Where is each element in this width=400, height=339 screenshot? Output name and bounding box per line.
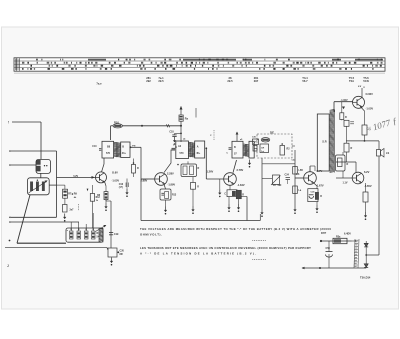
wire long feedback bottom [141, 220, 260, 222]
note paragraph 1 [140, 227, 331, 237]
gang arrow [29, 181, 47, 193]
det resistor R25 [280, 146, 285, 156]
wire IFT1 top to AGC [110, 126, 112, 140]
coil block S1 [36, 159, 51, 173]
svg-text:A: A [197, 146, 199, 149]
break marks on AGC [167, 124, 168, 127]
IFT1 windings [114, 142, 121, 157]
wire TS3 emitter [229, 185, 231, 189]
svg-text:45+: 45+ [196, 152, 201, 155]
electrolytic C25 symbol [309, 194, 314, 196]
wire det down x262 [261, 158, 263, 209]
cap C23 on x295 [293, 186, 298, 194]
wire base TS4 [295, 177, 304, 179]
ground TS3 a [228, 197, 230, 204]
wire base TS1 [57, 176, 96, 178]
cap C1b inside S1 [36, 166, 40, 171]
svg-text:LES TENSIONS ONT ETE MESUREES: LES TENSIONS ONT ETE MESUREES AVEC UN CO… [140, 246, 311, 250]
wire TS1 emitter [105, 182, 107, 187]
svg-text:7a.e: 7a.e [96, 82, 102, 86]
terminal power bottom [319, 267, 321, 269]
wire A5 bus [11, 221, 79, 223]
wire det to pot [262, 178, 272, 180]
IFT2 windings [189, 142, 195, 157]
transistor TS3 [224, 173, 237, 186]
svg-text:* * * * * * * *: * * * * * * * * [252, 239, 267, 243]
resistor R30 [344, 120, 349, 126]
svg-text:292: 292 [146, 79, 151, 83]
loudspeaker LS [377, 149, 385, 158]
resistor RB4 [92, 231, 96, 239]
wire up to det ground node [259, 214, 261, 221]
diode D2 [364, 264, 368, 268]
ground below TS4 [316, 202, 318, 205]
svg-text:B: B [122, 146, 124, 149]
battery B1 cells [354, 239, 359, 268]
svg-text:1st: 1st [261, 150, 264, 153]
terminal A5 [9, 221, 11, 223]
svg-text:C19: C19 [114, 233, 119, 236]
svg-text:T3A.D14: T3A.D14 [360, 276, 371, 280]
wire base TS5b [336, 177, 352, 179]
svg-text:570: 570 [180, 152, 185, 155]
wire transformer to base corner [333, 102, 335, 112]
ground below det [260, 209, 263, 217]
note paragraph 2 [140, 246, 311, 256]
resistor R22 [180, 107, 182, 116]
dial scale inner lines [14, 58, 385, 71]
capacitor C20 box [108, 248, 117, 257]
transistor TS2 [155, 173, 168, 186]
svg-text:-1.06V: -1.06V [341, 99, 348, 102]
junction dot on AGC [141, 125, 143, 127]
svg-text:(1?): (1?) [119, 187, 123, 189]
small arrow mark [87, 189, 89, 192]
terminal A6 [9, 240, 11, 242]
resistor R21 dark [236, 190, 241, 199]
svg-text:O.6V: O.6V [112, 170, 118, 174]
wire AGC stub [111, 125, 113, 127]
svg-text:U2V: U2V [74, 175, 79, 178]
svg-text:R: R [351, 147, 353, 150]
IF transformer T4 can [232, 141, 243, 158]
diode GR2 oval [261, 138, 270, 142]
terminal A4 [9, 217, 11, 219]
svg-text:A *-* DE LA TENSION DE LA BATT: A *-* DE LA TENSION DE LA BATTERIE (B.2 … [140, 252, 256, 256]
wire vertical x247 [246, 197, 248, 221]
svg-text:C50: C50 [326, 247, 331, 250]
ground below TS1 [104, 203, 107, 211]
wire det box to x295 [292, 145, 295, 147]
wire vertical x41 [40, 122, 42, 159]
ground under IFT3 right [248, 160, 251, 168]
svg-text:J: J [7, 264, 9, 268]
arrow across L4 [96, 226, 106, 232]
svg-text:DE: DE [270, 130, 274, 134]
resistor R34 below TS5b [363, 192, 368, 202]
svg-text:R: R [347, 163, 349, 166]
TS2 emitter cluster box [160, 189, 171, 200]
wire TS2 base from IFT1 [131, 146, 141, 148]
svg-text:* * * * * * * *: * * * * * * * * [252, 258, 267, 262]
wire A4 to node [11, 216, 57, 218]
diagonal wire gang to ground bus [17, 195, 30, 244]
wire TS2 emitter [164, 184, 166, 189]
wire TS4 collector [309, 166, 311, 172]
svg-text:56.7: 56.7 [302, 79, 308, 83]
capacitor outside IFT3 left [229, 147, 232, 149]
transistor TS5 big [353, 96, 365, 108]
dots inside S1 [44, 165, 45, 166]
terminal A1 [8, 121, 9, 125]
svg-text:DYP: DYP [321, 232, 326, 235]
terminal A3 [9, 164, 11, 166]
ground below TS5b [364, 212, 367, 220]
capacitor C16 marks [126, 179, 128, 183]
wire TS5 top terminal [361, 88, 363, 98]
base ground TS3 [219, 179, 221, 189]
ground bus bottom left [5, 247, 107, 249]
arrow mark on wire [342, 107, 345, 110]
wire pair box top [187, 161, 189, 164]
volume pot P2 [273, 175, 280, 185]
ground below C9 [63, 214, 66, 222]
wire TS3 collector [233, 160, 237, 173]
detector dashed box [257, 134, 292, 158]
wire x65 segs [57, 184, 65, 186]
svg-text:R12: R12 [96, 197, 101, 199]
wire vertical x56 [56, 151, 58, 217]
IFT2 mid line [172, 148, 176, 150]
svg-text:B: B [234, 146, 236, 149]
svg-text:C10: C10 [92, 146, 97, 148]
svg-text:6.4DV: 6.4DV [344, 233, 351, 236]
svg-text:570: 570 [106, 152, 111, 155]
resistor R29 below [340, 113, 344, 120]
svg-text:S.R: S.R [322, 140, 326, 144]
svg-text:-1.89V: -1.89V [168, 182, 176, 186]
wire TS4 emitter [314, 183, 318, 186]
resistor R31 [362, 125, 367, 135]
terminal power left [320, 240, 322, 242]
svg-text:8R: 8R [120, 253, 123, 256]
ground below TS2 [165, 200, 167, 207]
resistor R18 below pair [191, 183, 196, 190]
wire below pair [192, 177, 194, 183]
wire bottom y268 [302, 267, 366, 269]
svg-text:R13: R13 [172, 195, 177, 197]
wire x295 vertical [294, 150, 296, 206]
capacitor C9 box [63, 205, 68, 213]
transistor TS4 [304, 172, 317, 185]
wire IFT2 to TS3 base [205, 148, 207, 179]
gang sections [30, 182, 33, 192]
cap at det left edge [253, 146, 257, 152]
cap C19 marks [109, 232, 113, 234]
IF transformer T3 can left [176, 141, 189, 159]
transformer T4 can [317, 114, 329, 171]
resistor R11 [132, 165, 136, 174]
wire TS5b collector up [355, 162, 357, 172]
svg-text:-1.05V: -1.05V [366, 107, 374, 111]
resistor RB1 [70, 231, 74, 239]
wire bus into C20 [107, 248, 108, 250]
svg-text:CR: CR [261, 148, 265, 150]
resistor R32 [344, 143, 349, 152]
svg-text:R3a: R3a [336, 236, 341, 239]
resistor R33 on base net [338, 158, 343, 167]
dial scale band outline [14, 58, 385, 71]
svg-text:-1.05V: -1.05V [112, 179, 120, 183]
wire R8 to x111 [105, 200, 107, 201]
resistor RB2 [77, 231, 81, 239]
dashed marks x214 [213, 130, 215, 140]
transistor TS5b [352, 172, 364, 184]
resistor R39 box [333, 238, 347, 243]
IF transformer T2 can left [102, 141, 114, 158]
svg-text:f: f [8, 121, 9, 125]
tuning gang block C2 [28, 178, 50, 195]
svg-text:2.78V: 2.78V [237, 168, 244, 172]
wire horizontal y141 [346, 140, 379, 142]
ground below x295 [293, 206, 296, 214]
svg-text:5CN: 5CN [363, 79, 368, 83]
svg-text:C24: C24 [285, 174, 290, 177]
resistor R26 dark [315, 192, 318, 199]
cap C1a inside S1 [36, 160, 40, 164]
terminal A2 [9, 150, 11, 152]
svg-text:1.26V: 1.26V [207, 169, 214, 173]
wire x364 from TS5 [361, 107, 365, 111]
wire base TS5 top [334, 101, 353, 103]
svg-text:2.88V: 2.88V [141, 178, 148, 182]
wire gang to ts1 base row [49, 184, 56, 186]
stray mark x196 [195, 108, 197, 118]
svg-text:-5.65V: -5.65V [364, 184, 372, 188]
resistor R16 oval [113, 124, 122, 128]
ground TS3 b [238, 199, 240, 204]
svg-text:29.5: 29.5 [158, 79, 164, 83]
transformer T4 winding hatch [330, 110, 334, 173]
svg-text:C18: C18 [169, 132, 174, 134]
trimmer on IFT3 [253, 139, 259, 145]
wire IFT3 to det [254, 147, 257, 149]
IF transformer T2 can right [121, 142, 130, 157]
wire y255 to speaker line [366, 254, 379, 256]
svg-text:R: R [137, 167, 139, 170]
wire battery top [352, 240, 357, 242]
IFT3 right section [249, 141, 254, 158]
wire stubs above resistor box [70, 222, 72, 231]
svg-text:29.5: 29.5 [227, 79, 233, 83]
wire TS1 collector [102, 158, 105, 172]
svg-text:R16: R16 [114, 121, 119, 125]
svg-text:L5R: L5R [299, 170, 304, 172]
vertical x111 to C20 [110, 201, 112, 248]
wire pot to x295 [262, 163, 295, 165]
svg-text:OHM/VOLT).: OHM/VOLT). [140, 233, 162, 237]
resistor R7 [63, 189, 68, 198]
wire TS2 collector [164, 150, 175, 173]
ground below C20 [110, 258, 113, 266]
wire diode column [365, 241, 367, 243]
svg-text:R: R [345, 116, 347, 119]
resistor RB3 [85, 231, 89, 239]
IF transformer T3 can right [195, 141, 205, 158]
wire y241 [321, 240, 352, 242]
box around R33 [336, 155, 346, 171]
cap C22 on x295 [293, 167, 298, 175]
det inner box [260, 144, 269, 153]
wire x346 column [341, 119, 343, 122]
svg-text:1.1V: 1.1V [343, 182, 348, 185]
resistor box outline [66, 228, 103, 242]
wire from A3 [11, 164, 36, 166]
neutralising pair box [181, 164, 197, 177]
svg-text:T0A: T0A [349, 79, 354, 83]
TS4 emitter cluster box [308, 189, 318, 202]
wire from A2 [11, 150, 57, 152]
dial scale labels under band [96, 76, 369, 89]
ground below pair [192, 189, 194, 206]
svg-text:LS: LS [386, 152, 390, 155]
wire from A1 [12, 121, 41, 123]
dial scale tick markings [15, 59, 383, 71]
wire vertical x141 long [140, 147, 142, 220]
svg-text:6.2V: 6.2V [364, 170, 370, 174]
svg-text:-1.84V: -1.84V [237, 183, 245, 187]
svg-text:2.28V: 2.28V [167, 171, 174, 175]
svg-text:C16: C16 [119, 183, 124, 186]
coil L4 hatched [99, 228, 103, 242]
wire between blocks [40, 173, 42, 177]
wire speaker vertical x379 [378, 141, 380, 150]
AGC wire to x181 [122, 125, 181, 127]
resistor R12 on x92 [92, 185, 94, 194]
wire TS3 box to x247 [241, 196, 247, 198]
resistor R8 below TS1 [104, 192, 108, 200]
diode D1 [364, 243, 368, 247]
svg-text:THE VOLTAGES ARE MEASURED WITH: THE VOLTAGES ARE MEASURED WITH RESPECT T… [140, 227, 331, 231]
svg-text:297: 297 [254, 79, 259, 83]
transistor TS1 [96, 172, 107, 183]
cap C24 marks [286, 177, 291, 179]
svg-text:O.06V: O.06V [366, 92, 374, 96]
IFT3 windings [243, 144, 248, 156]
wire x141 to TS2 base [141, 178, 155, 180]
TS3 emitter cluster box [227, 190, 237, 197]
svg-text:R: R [198, 167, 200, 170]
capacitor C18 to ground [175, 132, 182, 134]
thick wire to resistor box [17, 242, 66, 244]
wire top arrow to IFT3 [236, 132, 238, 141]
svg-text:43+: 43+ [122, 152, 127, 155]
